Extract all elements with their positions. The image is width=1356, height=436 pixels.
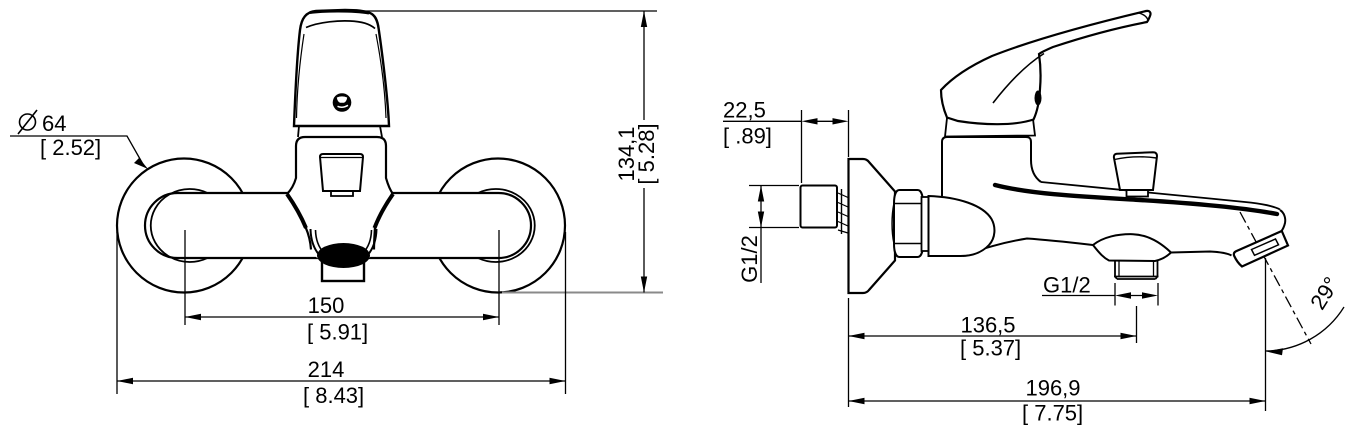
body and spout fill [928, 137, 1288, 279]
check valve dome [929, 196, 995, 256]
22,5 dimension [723, 98, 849, 184]
150 extension line right [498, 230, 500, 325]
wall flange circle left [117, 159, 251, 293]
150 arrow right [483, 314, 499, 320]
indicator dark dot [1035, 91, 1042, 106]
196,9 dimension [849, 258, 1266, 426]
wall nipple [801, 186, 838, 228]
cartridge recess bottom tab [331, 191, 353, 196]
dia 64 leader arrow [134, 158, 148, 169]
handle top inner arc [306, 21, 375, 29]
134,1 arrow up [641, 11, 647, 27]
spout shoulder left (heavy) [287, 194, 306, 228]
svg-text:[ 5.28]: [ 5.28] [634, 123, 659, 184]
dia 64 label [18, 110, 101, 160]
handle inner side line right [376, 34, 386, 118]
body capsule [145, 193, 531, 258]
29 degree centerline (dash-dot) [1240, 212, 1311, 344]
svg-text:[ 5.37]: [ 5.37] [960, 336, 1021, 361]
29 degree arc arrow [1267, 348, 1284, 355]
handle top heavy edge [310, 11, 369, 13]
spout underside [963, 239, 1093, 257]
hex nut facet lines [894, 204, 923, 244]
aerator inner rect [1252, 239, 1279, 255]
svg-text:G1/2: G1/2 [1043, 273, 1091, 298]
thread lines [838, 193, 848, 233]
134,1 top extension line [350, 10, 657, 12]
handle button white upper patch [337, 96, 347, 102]
dia 64 leader line [10, 136, 144, 166]
shower outlet boss dome [1093, 234, 1171, 252]
29 degree arc [1266, 307, 1345, 351]
svg-text:G1/2: G1/2 [737, 235, 762, 283]
cartridge recess top inner line [321, 157, 363, 159]
svg-text:214: 214 [308, 357, 345, 382]
hex nut barrel arcs [892, 204, 925, 244]
hex nut [894, 190, 923, 257]
aerator dark ellipse [317, 243, 370, 268]
svg-text:64: 64 [42, 111, 66, 136]
G1/2 left dimension [737, 186, 799, 284]
escutcheon (wall flange side) [849, 159, 896, 293]
svg-text:[ 2.52]: [ 2.52] [40, 135, 101, 160]
washer ring [922, 197, 929, 251]
boss bottom skirt edge [1093, 245, 1171, 261]
handle collar [945, 118, 1035, 137]
214 arrow right [550, 378, 566, 384]
handle front (cone) [294, 10, 389, 126]
top surface swoosh (heavy) [995, 185, 1277, 214]
nipple thread vertical line [841, 189, 843, 234]
lever crease line [993, 54, 1044, 104]
aerator end cap outer [1234, 231, 1288, 267]
svg-text:[ .89]: [ .89] [723, 124, 772, 149]
flange cone ring left [151, 189, 208, 262]
spout end rectangle [322, 258, 364, 281]
svg-text:136,5: 136,5 [960, 313, 1015, 338]
svg-text:22,5: 22,5 [723, 98, 766, 123]
handle inner side line left [297, 34, 305, 118]
handle button dark disc [333, 93, 352, 112]
spout rim inner arc [316, 230, 372, 261]
214 dimension line [117, 380, 566, 382]
wall flange circle right [431, 159, 565, 293]
spout top edge [1041, 182, 1280, 210]
134,1 arrow down [641, 277, 647, 293]
G1/2 bottom outlet dimension [1042, 273, 1158, 306]
svg-text:150: 150 [308, 293, 345, 318]
handle button white smile [338, 105, 349, 107]
136,5 dimension [849, 298, 1137, 407]
svg-text:[ 5.91]: [ 5.91] [307, 320, 368, 345]
214 extension line left [116, 232, 118, 394]
outlet block [1114, 261, 1159, 279]
spout tip right edge [1280, 210, 1285, 231]
spout rim outer arc [311, 229, 377, 266]
body block outline [287, 137, 393, 194]
214 extension line right [565, 232, 567, 394]
handle neck band [298, 126, 382, 137]
150 arrow left [185, 314, 201, 320]
cartridge recess outer [320, 154, 363, 191]
svg-text:196,9: 196,9 [1025, 376, 1080, 401]
spout shoulder right (heavy) [375, 194, 394, 228]
214 arrow left [117, 378, 133, 384]
outlet thread side doubles [1119, 262, 1154, 277]
diverter knob inner line [1115, 157, 1157, 160]
134,1 bottom extension line (gray) [502, 292, 663, 294]
neck block outline [942, 137, 1041, 196]
lever tip face line [1139, 13, 1148, 21]
svg-text:[ 7.75]: [ 7.75] [1022, 401, 1083, 426]
central body fill [287, 137, 393, 265]
134,1 dimension line [643, 11, 645, 120]
diverter knob stem [1127, 189, 1149, 197]
lever handle hood [941, 11, 1151, 124]
diverter knob [1114, 152, 1157, 190]
150 extension line left [184, 230, 186, 325]
150 dimension line [185, 316, 499, 318]
flange cone ring right [478, 189, 535, 262]
svg-text:[ 8.43]: [ 8.43] [303, 383, 364, 408]
